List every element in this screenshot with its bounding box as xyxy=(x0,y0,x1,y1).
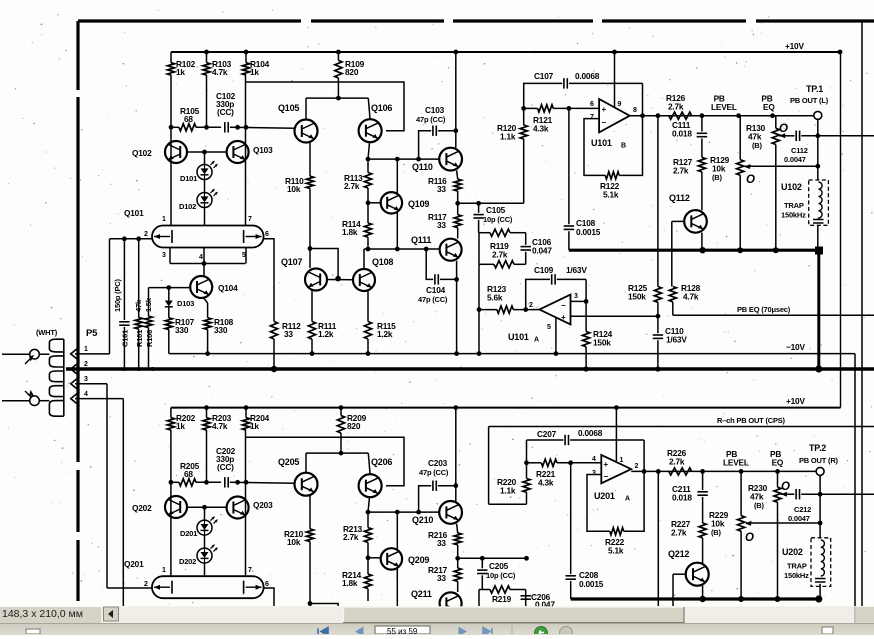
potentiometer R230 xyxy=(777,471,779,487)
node dots -10V rail xyxy=(205,351,210,356)
wire pin4 to Q104 xyxy=(203,264,205,277)
resistor R221 input line xyxy=(527,462,542,464)
U201A feedback box with R222 xyxy=(587,475,610,532)
Q212 emitter rail xyxy=(571,597,819,600)
bottom toolbar xyxy=(0,623,874,635)
P5 pin 4 arrow xyxy=(71,392,80,406)
-10V rail xyxy=(169,353,855,355)
transistor Q212 xyxy=(686,563,709,586)
+10V rail lower channel xyxy=(171,407,841,409)
wire R104 to Q106 collector xyxy=(246,82,404,131)
wire Q209 base xyxy=(368,557,381,559)
capacitor C211 xyxy=(702,471,704,490)
U101B pin9 supply wire xyxy=(614,52,616,108)
wire Q205 emitter to R210 xyxy=(309,496,311,529)
resistor R119 network box bottom xyxy=(479,263,494,265)
connector P5 body xyxy=(49,339,63,352)
resistor R114 xyxy=(366,200,371,205)
resistor R128 xyxy=(669,287,676,302)
status bar size panel xyxy=(0,607,103,622)
P5 pin 3 arrow xyxy=(71,377,80,391)
capacitor C108 xyxy=(568,108,570,224)
wire Q111 emitter xyxy=(456,261,458,354)
toolbar last-page button xyxy=(483,628,492,636)
wire TP.1 down xyxy=(817,119,819,180)
wire R119 box left leg xyxy=(478,233,480,265)
resistor R226 xyxy=(669,468,692,475)
resistor R111 xyxy=(308,322,315,340)
wire R105 to C102 xyxy=(196,126,221,128)
toolbar page icon left xyxy=(26,629,40,634)
wire D201 to D202 xyxy=(204,535,206,548)
wire -10V down right side xyxy=(854,354,856,606)
toolbar page number box xyxy=(375,626,430,634)
U101B feedback box with R122 xyxy=(584,119,605,176)
trap filter U102 dashed box xyxy=(809,180,829,225)
wire R110 branch to Q107-Q108 link xyxy=(308,246,313,251)
capacitor C208 xyxy=(570,463,572,574)
U102 coil xyxy=(819,182,823,218)
ground bus from P5 pin2 xyxy=(66,367,874,371)
wire C202 to Q205 base xyxy=(230,482,295,483)
wire Q205/Q206 collectors tie lower xyxy=(306,452,368,454)
op-amp U101A xyxy=(540,295,571,325)
resistor R220 xyxy=(526,440,528,479)
wire Q107 to R111 xyxy=(311,291,313,322)
wire Q112 emitter xyxy=(701,233,703,251)
wire Q210 emitter to R216 xyxy=(457,524,458,533)
capacitor C207 feedback xyxy=(527,439,564,441)
resistor R113 xyxy=(367,159,369,173)
Q101 pin 6 wire to R112 xyxy=(264,239,274,322)
resistor R101 xyxy=(138,239,140,318)
resistor R121 input line xyxy=(521,106,526,111)
resistor R115 xyxy=(364,322,371,340)
resistor R205 xyxy=(179,479,196,486)
wire Q212 base xyxy=(673,573,686,575)
node dots pin2 net xyxy=(122,236,127,241)
wire Q209 collector xyxy=(396,512,398,549)
capacitor C106 xyxy=(525,233,527,245)
Q112 emitter rail xyxy=(569,249,819,252)
wire P5 pin4 riser xyxy=(122,399,124,606)
wire Q110 collector xyxy=(455,52,457,148)
Q201 pin 2 wire xyxy=(107,587,152,589)
wire emitter node line xyxy=(171,126,179,128)
Q101 pin 3 stub xyxy=(169,248,171,264)
wire R210 branch to Q207 link xyxy=(308,601,313,606)
R229 wiper wire xyxy=(746,522,820,524)
wire P5 pin3 riser xyxy=(106,384,108,588)
resistor R120 xyxy=(523,108,525,125)
test point TP.2 xyxy=(816,467,824,475)
capacitor C103 wire xyxy=(419,131,432,159)
resistor R104 xyxy=(245,52,247,63)
capacitor C212 output xyxy=(781,493,794,495)
dual FET Q201 package xyxy=(152,576,264,598)
wire emitter node line lower xyxy=(171,481,179,483)
wire C102 to Q105 base xyxy=(230,127,295,128)
capacitor C109 feedback xyxy=(526,279,550,309)
transistor Q105 xyxy=(295,120,318,143)
wire Q212 emitter xyxy=(702,586,704,600)
wire Q109 base xyxy=(368,202,381,204)
U101A pin3 wire xyxy=(571,300,587,302)
resistor R105 xyxy=(179,124,196,131)
resistor R217 xyxy=(457,558,459,568)
U101B output line xyxy=(630,115,814,117)
test point TP.1 xyxy=(814,111,822,119)
Q201 internal left gate arrow xyxy=(154,586,170,588)
wire Q210 collector xyxy=(455,408,457,501)
wire Q209 emitter xyxy=(396,569,398,607)
wire TP.2 down xyxy=(819,475,821,537)
wire R-ch PB OUT down-leg xyxy=(488,427,490,505)
Q101 pin 4 stub xyxy=(203,248,205,264)
wire D202 down to Q201 xyxy=(204,563,206,576)
resistor R209 xyxy=(340,408,342,416)
wire Q102-Q103 base link xyxy=(187,151,227,153)
transistor Q210 xyxy=(439,501,462,524)
diode D102 xyxy=(197,193,212,208)
resistor R117 xyxy=(457,203,459,214)
toolbar forward button gray xyxy=(560,627,573,639)
wire U202 to rail xyxy=(819,584,821,599)
capacitor C202 xyxy=(224,477,226,487)
capacitor C205 xyxy=(481,558,483,568)
resistor R125 xyxy=(657,116,659,287)
resistor R112 xyxy=(270,322,277,340)
capacitor C203 wire xyxy=(419,486,432,512)
toolbar separator xyxy=(511,625,513,634)
wire Q109 emitter xyxy=(396,213,398,250)
Q101 internal left gate arrow xyxy=(154,236,170,238)
wire Q105 emitter to R110 xyxy=(309,142,311,176)
transistor Q108 xyxy=(353,269,375,291)
transistor Q209 xyxy=(381,548,402,569)
transistor Q205 xyxy=(295,473,318,496)
P5 pin 1 arrow xyxy=(71,347,80,361)
transistor Q111 xyxy=(440,239,462,261)
wire D101 to D102 xyxy=(204,180,206,193)
diode D101 xyxy=(197,165,212,180)
wire +10V right vertical xyxy=(840,52,842,408)
node dots ground bus xyxy=(122,367,126,371)
wire Q212 base down xyxy=(672,574,674,606)
transistor Q107 xyxy=(305,269,327,291)
resistor R227 xyxy=(699,523,706,538)
capacitor C104 xyxy=(426,249,433,279)
capacitor C105 xyxy=(478,203,480,213)
toolbar back button green xyxy=(535,627,548,639)
resistor R116 xyxy=(454,179,461,191)
wire Q202-Q203 base link xyxy=(187,506,227,508)
Q101 pin 5 stub xyxy=(245,248,247,264)
resistor R108 on Q104 emitter xyxy=(203,297,208,303)
transistor Q211 xyxy=(440,592,462,614)
resistor R214 xyxy=(366,555,371,560)
transistor Q206 xyxy=(359,474,382,497)
resistor R213 xyxy=(367,512,369,528)
capacitor C107 feedback xyxy=(524,83,563,108)
toolbar prev button xyxy=(356,628,363,636)
potentiometer R229 xyxy=(740,471,742,515)
wire Q104 base left xyxy=(149,287,191,289)
U101A plus input wire xyxy=(571,315,658,317)
P5 pin 3 wire xyxy=(75,383,107,385)
resistor R109 xyxy=(337,52,339,60)
R219 box legs xyxy=(478,590,480,607)
diode D201 xyxy=(197,520,212,535)
status bar xyxy=(0,607,874,625)
toolbar next button xyxy=(459,628,466,636)
potentiometer R130 xyxy=(775,116,777,129)
Q101 pin 2 wire from P5 pin1 xyxy=(110,238,153,240)
resistor R119 network box top xyxy=(479,232,490,234)
wire base link to D201 xyxy=(204,507,206,520)
node dots on +10V rail xyxy=(204,50,209,55)
op-amp U201A xyxy=(601,455,631,483)
transistor Q103 xyxy=(227,141,249,163)
resistor R102 xyxy=(170,52,172,63)
wire D102 down to Q101 xyxy=(204,208,206,226)
U201A output line xyxy=(631,470,816,472)
capacitor C110 xyxy=(656,314,661,319)
svg-text:55 из 59: 55 из 59 xyxy=(387,627,418,634)
capacitor C101 xyxy=(123,239,125,320)
transistor Q203 xyxy=(227,497,249,519)
wire R225 column lower xyxy=(657,471,659,606)
resistor R204 xyxy=(245,408,247,418)
shielded cable symbol pin4 xyxy=(2,400,30,402)
potentiometer R129 xyxy=(739,116,741,160)
toolbar first-page button xyxy=(318,628,328,636)
capacitor C112 output xyxy=(779,135,781,137)
toolbar right icon xyxy=(822,627,833,634)
wire Q112 base xyxy=(672,220,685,222)
wire Q106 emitter stub down xyxy=(368,142,370,159)
PB EQ line xyxy=(673,314,874,316)
R-ch PB OUT line xyxy=(489,426,874,428)
resistor R123 xyxy=(479,309,497,311)
transistor Q112 xyxy=(684,210,707,233)
R129 wiper wire xyxy=(745,165,818,167)
P5 pin 4 wire xyxy=(75,398,123,400)
resistor R110 xyxy=(306,176,313,188)
wire rail to R120 xyxy=(457,202,524,204)
node dots on lower +10V rail xyxy=(204,405,209,410)
transistor Q102 xyxy=(165,141,187,163)
wire pins 3-4-5 tie xyxy=(170,263,245,265)
op-amp U101B xyxy=(599,99,630,132)
transistor Q109 xyxy=(381,192,402,213)
P5 pin 2 arrow xyxy=(71,362,80,376)
P5 pin 1 wire xyxy=(75,353,110,355)
resistor R210 xyxy=(306,529,313,542)
resistor R106 xyxy=(145,316,152,327)
wire Q108 top to base rail xyxy=(363,249,365,269)
U202 capacitor xyxy=(815,578,826,580)
transistor Q110 xyxy=(439,148,462,171)
wire R204 to Q206 collector xyxy=(246,437,404,486)
wire U102 to rail xyxy=(817,225,819,247)
Q110 base line xyxy=(366,158,439,160)
wire Q105/Q106 collectors tie xyxy=(306,97,368,99)
resistor R124 xyxy=(585,301,587,331)
capacitor C111 xyxy=(701,116,703,132)
Q111 base line xyxy=(364,248,439,250)
diode D103 xyxy=(168,288,170,297)
Q101 internal right gate arrow xyxy=(246,236,262,238)
capacitor C102 xyxy=(224,122,226,132)
trap filter U202 dashed box xyxy=(811,538,831,587)
wire Q107-Q108 link xyxy=(327,279,353,281)
dual FET Q101 package xyxy=(152,226,264,248)
resistor R216 xyxy=(454,533,461,545)
wire Q108 to R115 xyxy=(367,291,369,322)
wire Q110 emitter to R116 xyxy=(457,171,458,180)
resistor R203 xyxy=(206,408,208,418)
resistor R103 xyxy=(206,52,208,63)
wire R-ch to R220 bottom xyxy=(489,503,527,505)
resistor R202 xyxy=(170,408,172,418)
diode D202 xyxy=(197,548,212,563)
wire P5 pin1 riser xyxy=(109,239,111,354)
transistor Q202 xyxy=(165,496,187,518)
wire Q104 base down to R106 xyxy=(148,288,150,317)
wire Q206 emitter stub down xyxy=(368,497,370,512)
long vertical wire right edge xyxy=(861,21,863,606)
U101A pin5 wire xyxy=(555,317,557,354)
transistor Q104 xyxy=(190,276,212,298)
Q201 internal right gate arrow xyxy=(246,586,262,588)
U202 coil xyxy=(821,540,825,576)
Q201 pin 6 wire xyxy=(264,588,274,606)
resistor R127 xyxy=(698,157,705,172)
resistor R219 network box top xyxy=(479,589,490,591)
wire Q109 collector xyxy=(396,159,398,193)
wire Q112 base down to R128 xyxy=(671,221,673,286)
Q210 base line xyxy=(366,511,439,513)
shielded cable symbol pin1 xyxy=(2,353,30,355)
wire base link to D101 xyxy=(204,152,206,165)
wire rail to C205 xyxy=(457,557,527,559)
U102 capacitor xyxy=(813,219,824,221)
+10V rail top xyxy=(171,51,841,53)
resistor R107 xyxy=(168,311,170,318)
capacitor C206 partial xyxy=(521,595,531,597)
U201A pin1 supply wire xyxy=(615,408,617,461)
transistor Q106 xyxy=(359,119,382,142)
resistor R126 xyxy=(669,112,692,119)
big junction to ground bus xyxy=(815,247,823,255)
wire R205 to C202 xyxy=(196,481,221,483)
